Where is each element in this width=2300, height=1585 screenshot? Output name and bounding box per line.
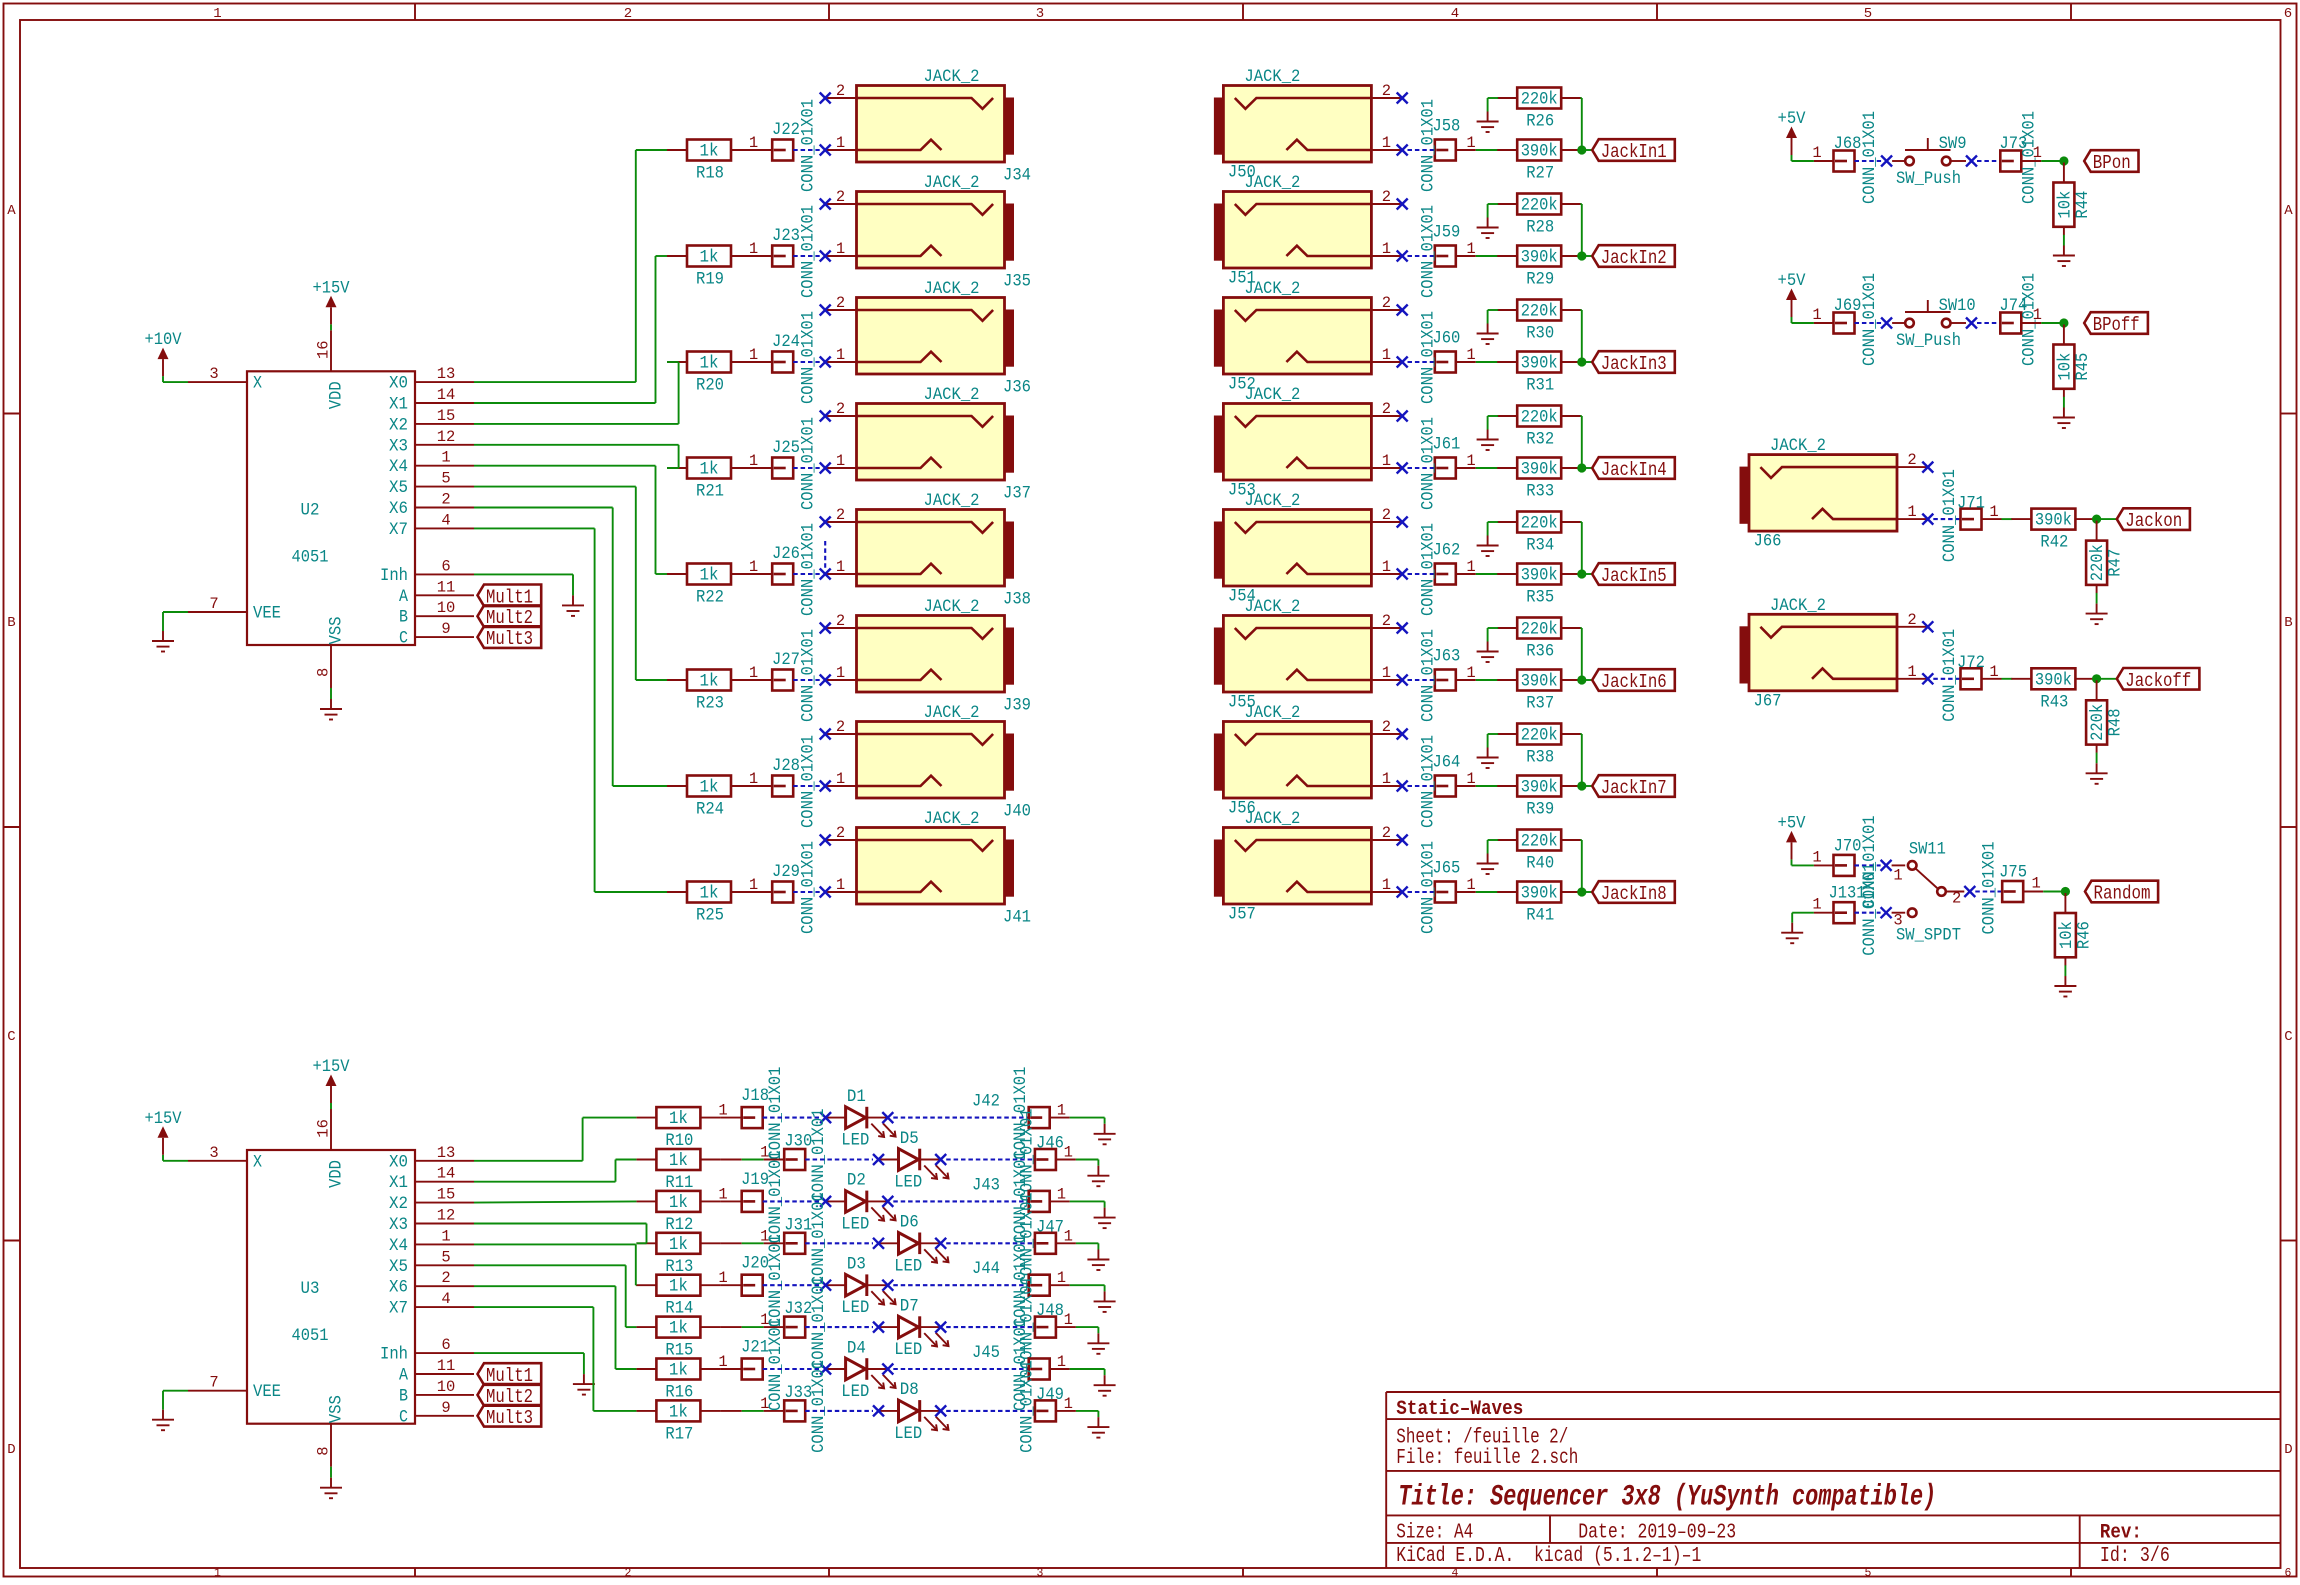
svg-text:220k: 220k bbox=[1521, 196, 1558, 216]
svg-text:1: 1 bbox=[836, 558, 845, 576]
svg-text:D3: D3 bbox=[847, 1255, 866, 1275]
svg-text:X1: X1 bbox=[389, 1173, 408, 1193]
svg-text:X4: X4 bbox=[389, 457, 408, 477]
svg-text:15: 15 bbox=[437, 407, 456, 425]
svg-text:2: 2 bbox=[836, 718, 845, 736]
svg-text:8: 8 bbox=[314, 668, 332, 677]
svg-text:J44: J44 bbox=[972, 1259, 1000, 1279]
svg-text:13: 13 bbox=[437, 1144, 456, 1162]
svg-text:1k: 1k bbox=[700, 248, 719, 268]
svg-text:7: 7 bbox=[209, 595, 218, 613]
svg-text:SW_Push: SW_Push bbox=[1896, 169, 1961, 189]
svg-text:R47: R47 bbox=[2106, 549, 2126, 577]
svg-text:390k: 390k bbox=[1521, 142, 1558, 162]
svg-text:SW_SPDT: SW_SPDT bbox=[1896, 926, 1961, 946]
svg-text:X7: X7 bbox=[389, 1299, 408, 1319]
svg-text:CONN_01X01: CONN_01X01 bbox=[1418, 841, 1438, 934]
svg-text:JackIn7: JackIn7 bbox=[1601, 777, 1667, 799]
svg-text:1: 1 bbox=[213, 6, 221, 22]
svg-text:J25: J25 bbox=[772, 438, 800, 458]
svg-text:1: 1 bbox=[836, 770, 845, 788]
svg-text:Id: 3/6: Id: 3/6 bbox=[2100, 1545, 2170, 1568]
svg-text:SW11: SW11 bbox=[1909, 839, 1946, 859]
svg-text:11: 11 bbox=[437, 1357, 456, 1375]
svg-text:R36: R36 bbox=[1526, 642, 1554, 662]
svg-text:390k: 390k bbox=[2035, 511, 2072, 531]
svg-text:2: 2 bbox=[1382, 82, 1391, 100]
svg-text:1: 1 bbox=[2033, 306, 2042, 324]
svg-text:D: D bbox=[2284, 1442, 2292, 1458]
svg-text:2: 2 bbox=[1382, 612, 1391, 630]
svg-text:5: 5 bbox=[441, 1248, 450, 1266]
svg-text:CONN_01X01: CONN_01X01 bbox=[1418, 735, 1438, 828]
svg-text:Inh: Inh bbox=[380, 566, 408, 586]
svg-text:2: 2 bbox=[836, 188, 845, 206]
svg-text:CONN_01X01: CONN_01X01 bbox=[799, 523, 819, 616]
svg-text:R30: R30 bbox=[1526, 324, 1554, 344]
svg-text:1: 1 bbox=[214, 1567, 221, 1580]
svg-text:3: 3 bbox=[209, 1144, 218, 1162]
svg-text:2: 2 bbox=[1907, 611, 1916, 629]
svg-text:CONN_01X01: CONN_01X01 bbox=[1418, 99, 1438, 192]
svg-text:J71: J71 bbox=[1957, 494, 1985, 514]
svg-text:1k: 1k bbox=[669, 1361, 688, 1381]
svg-text:JACK_2: JACK_2 bbox=[924, 703, 980, 723]
svg-text:X: X bbox=[253, 1152, 262, 1172]
svg-text:J43: J43 bbox=[972, 1175, 1000, 1195]
svg-text:1k: 1k bbox=[700, 354, 719, 374]
svg-text:4: 4 bbox=[1451, 6, 1459, 22]
svg-text:R32: R32 bbox=[1526, 430, 1554, 450]
svg-text:D7: D7 bbox=[900, 1296, 919, 1316]
svg-text:1: 1 bbox=[1466, 664, 1475, 682]
svg-text:C: C bbox=[399, 629, 408, 649]
svg-text:9: 9 bbox=[441, 620, 450, 638]
svg-text:CONN_01X01: CONN_01X01 bbox=[799, 205, 819, 298]
svg-text:CONN_01X01: CONN_01X01 bbox=[1418, 205, 1438, 298]
svg-text:Rev:: Rev: bbox=[2100, 1522, 2142, 1545]
svg-text:A: A bbox=[2284, 203, 2293, 219]
svg-text:2: 2 bbox=[836, 82, 845, 100]
svg-text:A: A bbox=[399, 587, 408, 607]
svg-text:2: 2 bbox=[836, 824, 845, 842]
svg-text:2: 2 bbox=[1907, 451, 1916, 469]
svg-text:X1: X1 bbox=[389, 395, 408, 415]
svg-text:1: 1 bbox=[749, 558, 758, 576]
svg-text:1: 1 bbox=[1812, 144, 1821, 162]
svg-text:1: 1 bbox=[836, 664, 845, 682]
svg-text:390k: 390k bbox=[2035, 670, 2072, 690]
svg-text:J70: J70 bbox=[1834, 836, 1862, 856]
svg-text:R43: R43 bbox=[2040, 692, 2068, 712]
svg-text:JackIn2: JackIn2 bbox=[1601, 247, 1667, 269]
svg-text:JACK_2: JACK_2 bbox=[924, 597, 980, 617]
svg-text:JACK_2: JACK_2 bbox=[924, 173, 980, 193]
svg-text:R37: R37 bbox=[1526, 694, 1554, 714]
svg-text:J27: J27 bbox=[772, 650, 800, 670]
svg-text:1: 1 bbox=[749, 452, 758, 470]
svg-text:J22: J22 bbox=[772, 120, 800, 140]
svg-text:X6: X6 bbox=[389, 1278, 408, 1298]
svg-text:VSS: VSS bbox=[327, 1395, 347, 1423]
svg-text:R19: R19 bbox=[696, 270, 724, 290]
svg-text:15: 15 bbox=[437, 1186, 456, 1204]
svg-text:1k: 1k bbox=[669, 1151, 688, 1171]
svg-text:D2: D2 bbox=[847, 1171, 866, 1191]
svg-text:1: 1 bbox=[441, 449, 450, 467]
svg-text:1: 1 bbox=[1057, 1269, 1066, 1287]
svg-text:X2: X2 bbox=[389, 1194, 408, 1214]
svg-text:R31: R31 bbox=[1526, 376, 1554, 396]
svg-text:1: 1 bbox=[1057, 1102, 1066, 1120]
svg-text:2: 2 bbox=[836, 612, 845, 630]
svg-text:J75: J75 bbox=[1999, 863, 2027, 883]
svg-text:JACK_2: JACK_2 bbox=[1244, 597, 1300, 617]
svg-text:R25: R25 bbox=[696, 906, 724, 926]
svg-text:1k: 1k bbox=[700, 142, 719, 162]
svg-text:A: A bbox=[399, 1366, 408, 1386]
svg-text:JackIn6: JackIn6 bbox=[1601, 671, 1667, 693]
svg-text:3: 3 bbox=[1893, 912, 1902, 930]
svg-text:8: 8 bbox=[314, 1446, 332, 1455]
svg-text:R34: R34 bbox=[1526, 536, 1554, 556]
svg-text:Title: Sequencer 3x8 (YuSynth: Title: Sequencer 3x8 (YuSynth compatible… bbox=[1398, 1481, 1936, 1515]
svg-text:16: 16 bbox=[314, 340, 332, 359]
svg-text:1: 1 bbox=[1382, 876, 1391, 894]
svg-text:CONN_01X01: CONN_01X01 bbox=[1017, 1360, 1037, 1453]
svg-text:1: 1 bbox=[749, 134, 758, 152]
svg-text:J72: J72 bbox=[1957, 653, 1985, 673]
svg-text:1k: 1k bbox=[669, 1277, 688, 1297]
svg-text:2: 2 bbox=[441, 1269, 450, 1287]
svg-text:1: 1 bbox=[1382, 240, 1391, 258]
svg-text:220k: 220k bbox=[1521, 832, 1558, 852]
svg-text:+5V: +5V bbox=[1778, 813, 1806, 833]
svg-text:JACK_2: JACK_2 bbox=[924, 385, 980, 405]
svg-text:X3: X3 bbox=[389, 436, 408, 456]
svg-text:VEE: VEE bbox=[253, 1382, 281, 1402]
svg-text:6: 6 bbox=[441, 1336, 450, 1354]
svg-text:Mult3: Mult3 bbox=[486, 628, 533, 650]
svg-text:1: 1 bbox=[1893, 866, 1902, 884]
svg-text:VDD: VDD bbox=[327, 381, 347, 409]
svg-text:B: B bbox=[2284, 615, 2292, 631]
svg-text:12: 12 bbox=[437, 1207, 456, 1225]
svg-text:JACK_2: JACK_2 bbox=[1770, 436, 1826, 456]
svg-text:J35: J35 bbox=[1003, 272, 1031, 292]
svg-text:1: 1 bbox=[1907, 663, 1916, 681]
svg-text:1: 1 bbox=[1064, 1227, 1073, 1245]
svg-text:1: 1 bbox=[749, 770, 758, 788]
svg-text:R46: R46 bbox=[2074, 921, 2094, 949]
svg-text:1: 1 bbox=[2031, 875, 2040, 893]
svg-text:J19: J19 bbox=[741, 1170, 769, 1190]
svg-text:3: 3 bbox=[209, 365, 218, 383]
svg-text:R39: R39 bbox=[1526, 800, 1554, 820]
svg-text:CONN_01X01: CONN_01X01 bbox=[1860, 111, 1880, 204]
svg-text:10: 10 bbox=[437, 599, 456, 617]
svg-text:+15V: +15V bbox=[145, 1109, 182, 1129]
svg-text:JACK_2: JACK_2 bbox=[924, 67, 980, 87]
svg-text:14: 14 bbox=[437, 1165, 456, 1183]
svg-text:U2: U2 bbox=[301, 500, 320, 520]
svg-text:LED: LED bbox=[841, 1382, 869, 1402]
svg-text:B: B bbox=[7, 615, 15, 631]
svg-text:6: 6 bbox=[2285, 1567, 2292, 1580]
svg-text:1: 1 bbox=[1466, 240, 1475, 258]
svg-text:1: 1 bbox=[718, 1353, 727, 1371]
svg-text:220k: 220k bbox=[1521, 514, 1558, 534]
svg-text:10: 10 bbox=[437, 1378, 456, 1396]
svg-text:2: 2 bbox=[1382, 400, 1391, 418]
svg-text:CONN_01X01: CONN_01X01 bbox=[799, 735, 819, 828]
svg-text:1: 1 bbox=[836, 134, 845, 152]
svg-text:Random: Random bbox=[2094, 883, 2151, 905]
svg-text:SW10: SW10 bbox=[1939, 296, 1976, 316]
svg-text:JACK_2: JACK_2 bbox=[1244, 809, 1300, 829]
svg-text:1k: 1k bbox=[669, 1193, 688, 1213]
svg-text:CONN_01X01: CONN_01X01 bbox=[1418, 417, 1438, 510]
svg-text:R22: R22 bbox=[696, 588, 724, 608]
svg-text:6: 6 bbox=[441, 557, 450, 575]
svg-text:1: 1 bbox=[749, 240, 758, 258]
svg-text:4: 4 bbox=[441, 1290, 450, 1308]
svg-text:J36: J36 bbox=[1003, 378, 1031, 398]
svg-text:390k: 390k bbox=[1521, 672, 1558, 692]
svg-text:JackIn5: JackIn5 bbox=[1601, 565, 1667, 587]
svg-text:CONN_01X01: CONN_01X01 bbox=[1860, 863, 1880, 956]
svg-text:1: 1 bbox=[1057, 1353, 1066, 1371]
svg-text:+15V: +15V bbox=[313, 1057, 350, 1077]
svg-text:3: 3 bbox=[1037, 1567, 1044, 1580]
svg-text:390k: 390k bbox=[1521, 884, 1558, 904]
svg-text:BPon: BPon bbox=[2093, 152, 2131, 174]
svg-text:R27: R27 bbox=[1526, 164, 1554, 184]
svg-text:1k: 1k bbox=[669, 1402, 688, 1422]
svg-text:1: 1 bbox=[749, 876, 758, 894]
svg-text:R48: R48 bbox=[2106, 708, 2126, 736]
svg-text:1: 1 bbox=[1466, 770, 1475, 788]
svg-text:JACK_2: JACK_2 bbox=[1244, 173, 1300, 193]
svg-text:VEE: VEE bbox=[253, 604, 281, 624]
svg-text:220k: 220k bbox=[1521, 620, 1558, 640]
svg-text:D4: D4 bbox=[847, 1338, 866, 1358]
svg-text:JACK_2: JACK_2 bbox=[1244, 279, 1300, 299]
svg-text:Date: 2019–09–23: Date: 2019–09–23 bbox=[1578, 1522, 1736, 1545]
svg-text:CONN_01X01: CONN_01X01 bbox=[1860, 273, 1880, 366]
svg-text:1: 1 bbox=[1812, 896, 1821, 914]
svg-text:1k: 1k bbox=[700, 566, 719, 586]
svg-text:CONN_01X01: CONN_01X01 bbox=[799, 841, 819, 934]
svg-text:1: 1 bbox=[749, 346, 758, 364]
svg-text:B: B bbox=[399, 608, 408, 628]
svg-text:5: 5 bbox=[1865, 1567, 1872, 1580]
svg-text:1k: 1k bbox=[669, 1319, 688, 1339]
svg-text:CONN_01X01: CONN_01X01 bbox=[1418, 311, 1438, 404]
svg-text:1: 1 bbox=[836, 346, 845, 364]
svg-text:U3: U3 bbox=[301, 1279, 320, 1299]
svg-text:CONN_01X01: CONN_01X01 bbox=[799, 629, 819, 722]
svg-text:R24: R24 bbox=[696, 800, 724, 820]
svg-text:4: 4 bbox=[441, 511, 450, 529]
svg-text:6: 6 bbox=[2284, 6, 2292, 22]
svg-text:CONN_01X01: CONN_01X01 bbox=[1418, 629, 1438, 722]
svg-text:13: 13 bbox=[437, 365, 456, 383]
svg-text:1: 1 bbox=[1064, 1395, 1073, 1413]
svg-text:Inh: Inh bbox=[380, 1345, 408, 1365]
svg-text:2: 2 bbox=[1382, 294, 1391, 312]
svg-text:J40: J40 bbox=[1003, 802, 1031, 822]
svg-text:D8: D8 bbox=[900, 1380, 919, 1400]
svg-text:C: C bbox=[399, 1407, 408, 1427]
svg-text:220k: 220k bbox=[1521, 90, 1558, 110]
svg-text:+5V: +5V bbox=[1778, 109, 1806, 129]
svg-text:1: 1 bbox=[2033, 144, 2042, 162]
svg-text:X0: X0 bbox=[389, 374, 408, 394]
svg-text:1: 1 bbox=[1466, 452, 1475, 470]
svg-text:CONN_01X01: CONN_01X01 bbox=[799, 311, 819, 404]
svg-text:R35: R35 bbox=[1526, 588, 1554, 608]
svg-text:J23: J23 bbox=[772, 226, 800, 246]
svg-text:SW_Push: SW_Push bbox=[1896, 331, 1961, 351]
svg-text:CONN_01X01: CONN_01X01 bbox=[809, 1276, 829, 1369]
svg-text:R29: R29 bbox=[1526, 270, 1554, 290]
svg-text:J26: J26 bbox=[772, 544, 800, 564]
svg-text:X6: X6 bbox=[389, 499, 408, 519]
svg-text:CONN_01X01: CONN_01X01 bbox=[799, 99, 819, 192]
svg-text:LED: LED bbox=[894, 1256, 922, 1276]
svg-text:J29: J29 bbox=[772, 862, 800, 882]
svg-text:JACK_2: JACK_2 bbox=[924, 491, 980, 511]
svg-text:JACK_2: JACK_2 bbox=[1244, 703, 1300, 723]
svg-text:1: 1 bbox=[718, 1269, 727, 1287]
svg-text:C: C bbox=[2284, 1029, 2292, 1045]
svg-text:R41: R41 bbox=[1526, 906, 1554, 926]
svg-text:JACK_2: JACK_2 bbox=[924, 279, 980, 299]
svg-text:J21: J21 bbox=[741, 1337, 769, 1357]
svg-text:1: 1 bbox=[1382, 770, 1391, 788]
svg-text:1k: 1k bbox=[669, 1235, 688, 1255]
svg-text:J69: J69 bbox=[1834, 296, 1862, 316]
svg-text:+10V: +10V bbox=[145, 330, 182, 350]
svg-text:CONN_01X01: CONN_01X01 bbox=[1979, 842, 1999, 935]
svg-text:D1: D1 bbox=[847, 1087, 866, 1107]
svg-text:R20: R20 bbox=[696, 376, 724, 396]
svg-text:JACK_2: JACK_2 bbox=[1244, 385, 1300, 405]
svg-text:CONN_01X01: CONN_01X01 bbox=[809, 1109, 829, 1202]
svg-text:1k: 1k bbox=[700, 672, 719, 692]
svg-text:4: 4 bbox=[1452, 1567, 1459, 1580]
svg-text:R26: R26 bbox=[1526, 112, 1554, 132]
svg-text:1: 1 bbox=[1466, 134, 1475, 152]
svg-text:J28: J28 bbox=[772, 756, 800, 776]
svg-text:1: 1 bbox=[1382, 558, 1391, 576]
svg-text:JackIn4: JackIn4 bbox=[1601, 459, 1667, 481]
svg-text:1k: 1k bbox=[700, 884, 719, 904]
svg-text:CONN_01X01: CONN_01X01 bbox=[1940, 469, 1960, 562]
svg-text:X5: X5 bbox=[389, 1257, 408, 1277]
svg-text:2: 2 bbox=[1382, 824, 1391, 842]
svg-text:KiCad E.D.A. kicad (5.1.2–1)–: KiCad E.D.A. kicad (5.1.2–1)–1 bbox=[1396, 1545, 1701, 1568]
svg-text:X5: X5 bbox=[389, 478, 408, 498]
svg-text:JackIn3: JackIn3 bbox=[1601, 353, 1667, 375]
svg-text:X2: X2 bbox=[389, 415, 408, 435]
svg-text:220k: 220k bbox=[1521, 726, 1558, 746]
svg-text:2: 2 bbox=[441, 491, 450, 509]
svg-text:1: 1 bbox=[1812, 306, 1821, 324]
svg-text:2: 2 bbox=[1952, 890, 1961, 908]
svg-text:1: 1 bbox=[1989, 503, 1998, 521]
svg-text:LED: LED bbox=[841, 1298, 869, 1318]
svg-text:1: 1 bbox=[441, 1227, 450, 1245]
svg-text:CONN_01X01: CONN_01X01 bbox=[809, 1360, 829, 1453]
svg-text:JACK_2: JACK_2 bbox=[924, 809, 980, 829]
svg-text:LED: LED bbox=[894, 1173, 922, 1193]
svg-text:1: 1 bbox=[836, 876, 845, 894]
svg-text:390k: 390k bbox=[1521, 460, 1558, 480]
svg-text:390k: 390k bbox=[1521, 354, 1558, 374]
svg-text:JackIn1: JackIn1 bbox=[1601, 141, 1667, 163]
svg-text:1: 1 bbox=[1466, 558, 1475, 576]
svg-text:2: 2 bbox=[836, 400, 845, 418]
svg-text:2: 2 bbox=[624, 6, 632, 22]
svg-text:1: 1 bbox=[1907, 503, 1916, 521]
svg-text:3: 3 bbox=[1036, 6, 1044, 22]
svg-text:J34: J34 bbox=[1003, 166, 1031, 186]
svg-text:J37: J37 bbox=[1003, 484, 1031, 504]
svg-text:J68: J68 bbox=[1834, 134, 1862, 154]
svg-text:J38: J38 bbox=[1003, 590, 1031, 610]
svg-text:J45: J45 bbox=[972, 1343, 1000, 1363]
svg-text:1: 1 bbox=[1382, 134, 1391, 152]
svg-text:J66: J66 bbox=[1754, 532, 1782, 552]
svg-text:JACK_2: JACK_2 bbox=[1244, 491, 1300, 511]
svg-text:7: 7 bbox=[209, 1374, 218, 1392]
svg-text:390k: 390k bbox=[1521, 778, 1558, 798]
svg-text:Jackoff: Jackoff bbox=[2125, 670, 2191, 692]
svg-text:LED: LED bbox=[894, 1424, 922, 1444]
svg-text:2: 2 bbox=[625, 1567, 632, 1580]
svg-text:C: C bbox=[7, 1029, 15, 1045]
svg-text:R44: R44 bbox=[2073, 191, 2093, 219]
svg-text:X4: X4 bbox=[389, 1236, 408, 1256]
svg-text:Static–Waves: Static–Waves bbox=[1396, 1398, 1523, 1421]
svg-text:X3: X3 bbox=[389, 1215, 408, 1235]
svg-text:D6: D6 bbox=[900, 1213, 919, 1233]
svg-text:LED: LED bbox=[841, 1214, 869, 1234]
svg-text:CONN_01X01: CONN_01X01 bbox=[1418, 523, 1438, 616]
svg-text:CONN_01X01: CONN_01X01 bbox=[799, 417, 819, 510]
svg-text:X0: X0 bbox=[389, 1152, 408, 1172]
svg-text:R33: R33 bbox=[1526, 482, 1554, 502]
svg-text:+5V: +5V bbox=[1778, 271, 1806, 291]
svg-text:BPoff: BPoff bbox=[2093, 314, 2140, 336]
svg-text:390k: 390k bbox=[1521, 566, 1558, 586]
svg-text:R38: R38 bbox=[1526, 748, 1554, 768]
svg-text:R23: R23 bbox=[696, 694, 724, 714]
svg-text:R40: R40 bbox=[1526, 854, 1554, 874]
svg-text:5: 5 bbox=[1864, 6, 1872, 22]
svg-text:J41: J41 bbox=[1003, 908, 1031, 928]
svg-text:VDD: VDD bbox=[327, 1160, 347, 1188]
svg-text:1: 1 bbox=[1064, 1311, 1073, 1329]
svg-text:12: 12 bbox=[437, 428, 456, 446]
svg-text:2: 2 bbox=[836, 506, 845, 524]
svg-text:1: 1 bbox=[1382, 452, 1391, 470]
svg-text:1: 1 bbox=[760, 1395, 769, 1413]
svg-text:1: 1 bbox=[1989, 663, 1998, 681]
svg-text:1: 1 bbox=[1382, 346, 1391, 364]
